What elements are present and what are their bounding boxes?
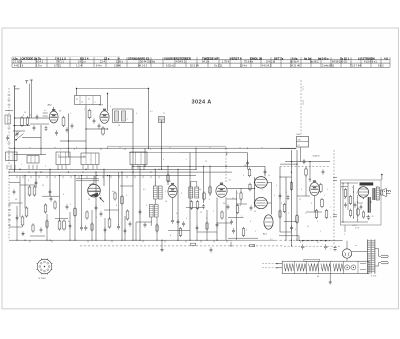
svg-text:2: 2 <box>311 203 312 205</box>
svg-text:3 6 1 e: 3 6 1 e <box>78 60 86 64</box>
capacitor C48 <box>279 194 282 196</box>
wire rectifier drop <box>346 258 348 261</box>
switch S1 wave band lever <box>16 134 24 140</box>
resistor R18 volume pot <box>248 169 251 176</box>
wire grid return y125 <box>13 125 30 127</box>
wire seg y196 <box>42 195 60 197</box>
tube V2 AF3 IF amp <box>100 111 109 123</box>
capacitor C39 <box>290 226 293 228</box>
resistor R49 <box>91 224 93 230</box>
svg-text:4: 4 <box>330 217 331 219</box>
dots row right <box>382 191 383 192</box>
resistor R19 <box>242 229 245 236</box>
svg-text:2: 2 <box>274 195 275 197</box>
wire x265 drop <box>264 166 266 176</box>
capacitor C35 <box>177 220 180 222</box>
wire drop x110 <box>109 176 111 219</box>
capacitor C40 <box>322 170 325 172</box>
wire coil vertical x161 <box>161 120 163 169</box>
resistor R44 <box>240 193 242 199</box>
wire drop x75 <box>74 176 76 241</box>
svg-text:1 56 e: 1 56 e <box>116 60 124 64</box>
wire oscillator feed vertical x68 <box>67 114 69 158</box>
wire y137 stub <box>22 137 41 139</box>
wire seg y232 <box>197 231 217 233</box>
resistor R41 <box>86 212 88 218</box>
resistor R25 <box>344 190 347 197</box>
svg-text:50: 50 <box>165 201 167 203</box>
wire x310 vertical <box>309 162 311 182</box>
wire drop x178 <box>177 169 179 240</box>
capacitor C21 <box>367 216 370 218</box>
capacitor C20 <box>354 203 357 205</box>
svg-text:6: 6 <box>170 235 171 237</box>
svg-text:8 14 2: 8 14 2 <box>36 60 44 64</box>
box L1 oscillator coil pack <box>75 96 101 105</box>
wire switch bus line 2 <box>9 171 232 173</box>
capacitor C25 <box>210 248 213 250</box>
wire seg y221 right <box>284 221 297 223</box>
wire riser x204 <box>203 166 205 203</box>
wire plate vertical x107 <box>107 94 109 111</box>
svg-text:4: 4 <box>301 189 302 191</box>
dial lamp LA1 <box>345 265 350 270</box>
wire AVC line y166 <box>133 165 265 167</box>
svg-text:2: 2 <box>320 231 321 233</box>
tube V10 AZ1 rectifier <box>342 249 351 258</box>
wire T2 link <box>154 199 156 205</box>
wire drop x50 <box>49 169 51 196</box>
svg-text:2: 2 <box>246 230 247 232</box>
box T2 lower coil a <box>149 205 153 218</box>
svg-text:6: 6 <box>28 180 29 182</box>
capacitor C45 <box>129 222 132 224</box>
header table column separators <box>11 57 13 67</box>
svg-text:21 4 e: 21 4 e <box>240 64 248 68</box>
junction extra dots <box>14 148 15 149</box>
box L8 padder coil <box>130 152 147 165</box>
wire V8 cathode <box>314 196 316 212</box>
svg-text:1 9 e: 1 9 e <box>36 64 42 68</box>
capacitor C27 <box>45 127 48 129</box>
resistor R46 <box>350 210 352 216</box>
wire seg y222 mid <box>136 221 152 223</box>
capacitor C3 <box>66 128 69 130</box>
capacitor C13 <box>202 205 205 207</box>
wire y129 seg <box>86 128 108 130</box>
svg-text:21: 21 <box>81 102 83 104</box>
tube V7 AL4 output <box>264 215 273 229</box>
wire antenna rail y89 short <box>15 88 20 90</box>
svg-text:50: 50 <box>24 112 26 114</box>
svg-text:1 75 4: 1 75 4 <box>222 60 230 64</box>
svg-text:4a: 4a <box>76 99 78 101</box>
capacitor C2 <box>33 126 36 128</box>
wire y152 right ext <box>180 152 248 154</box>
wire ground bus y240 right <box>232 239 275 241</box>
resistor R28 on heater bus <box>191 243 196 245</box>
resistor R22 <box>315 211 318 218</box>
svg-text:1: 1 <box>356 193 357 195</box>
wire drop x157 <box>156 217 158 240</box>
wire IF1 vertical x133 <box>132 110 134 240</box>
capacitor C16 <box>303 160 306 162</box>
capacitor C24 filter <box>333 247 336 249</box>
svg-text:64: 64 <box>344 198 346 200</box>
svg-text:8+: 8+ <box>317 242 319 244</box>
wire drop x207 <box>206 210 208 240</box>
wire block top rail <box>341 182 358 184</box>
wire seg y182 left <box>9 182 20 184</box>
svg-text:1: 1 <box>288 213 289 215</box>
svg-text:1: 1 <box>127 119 128 121</box>
svg-text:2: 2 <box>237 193 238 195</box>
wire drop x155 <box>154 169 156 186</box>
capacitor C46 <box>230 220 233 222</box>
svg-text:e: e <box>324 195 325 197</box>
capacitor C50 <box>360 205 363 207</box>
capacitor C47 <box>250 206 253 208</box>
wire earth tick <box>13 85 16 87</box>
wire seg y218 <box>55 217 68 219</box>
wire drop x140 <box>139 166 141 240</box>
wire antenna terminal A2 <box>30 79 33 81</box>
svg-text:1400: 1400 <box>296 134 300 136</box>
svg-text:e: e <box>262 189 263 191</box>
svg-text:DET 7a: DET 7a <box>274 56 284 60</box>
svg-text:2a: 2a <box>268 175 270 177</box>
svg-text:14 21 40: 14 21 40 <box>290 64 300 68</box>
wire seg y227 <box>9 226 23 228</box>
capacitor C52 <box>16 216 19 218</box>
dots lower band <box>16 240 17 241</box>
wire seg y186 mid <box>120 185 133 187</box>
tube V6 output pentode lower <box>255 197 268 208</box>
capacitor C9 <box>117 225 120 227</box>
resistor R47 <box>363 212 365 217</box>
svg-text:e 25 4: e 25 4 <box>352 225 357 227</box>
wire y148 stub right <box>280 148 297 150</box>
resistor R33 <box>167 175 169 181</box>
svg-text:4: 4 <box>110 106 111 108</box>
svg-text:a: a <box>95 102 96 104</box>
svg-text:2 8 40: 2 8 40 <box>114 64 122 68</box>
svg-text:1M: 1M <box>244 165 247 167</box>
svg-text:5: 5 <box>317 221 318 223</box>
wire heater dashed bus y246 <box>80 245 283 247</box>
resistor R16 <box>196 202 199 209</box>
svg-text:2: 2 <box>150 149 151 151</box>
svg-text:0,1: 0,1 <box>150 111 153 113</box>
svg-text:58: 58 <box>15 199 17 201</box>
capacitor C4 <box>93 119 96 121</box>
svg-text:50: 50 <box>223 203 225 205</box>
wire B+ top y241 <box>299 240 343 242</box>
svg-text:6: 6 <box>136 113 137 115</box>
wire drop x82 y176-224 <box>81 176 83 226</box>
capacitor C44 <box>100 212 103 214</box>
wire y238 lower <box>228 237 258 239</box>
capacitor C31 <box>35 181 38 183</box>
wire vertical x86 <box>85 105 87 153</box>
capacitor C10 <box>144 223 147 225</box>
svg-text:75 3,4 e: 75 3,4 e <box>244 60 254 64</box>
capacitor C34 <box>139 210 142 212</box>
svg-text:8: 8 <box>116 205 117 207</box>
wire block inner vertical b <box>347 183 349 210</box>
svg-text:4: 4 <box>295 229 296 231</box>
wire bus segment y154 <box>14 153 46 155</box>
resistor R50 <box>156 225 158 231</box>
capacitor C15 <box>232 229 235 231</box>
wire x236 vertical <box>235 190 237 240</box>
svg-text:52: 52 <box>88 199 90 201</box>
svg-text:h1: h1 <box>83 156 85 158</box>
svg-text:54 1 6 2: 54 1 6 2 <box>138 64 148 68</box>
arrow AVC into oscillator <box>100 198 105 203</box>
svg-text:0,1: 0,1 <box>270 239 273 241</box>
svg-text:25: 25 <box>372 216 374 218</box>
tick marks left frame <box>8 94 11 96</box>
wire drop x17 <box>16 206 18 240</box>
box T1 IF transformer 1 <box>113 109 134 123</box>
wire rectifier to transformer <box>352 251 368 253</box>
resistor R5 <box>28 187 31 195</box>
wire x226 cathode drop <box>225 197 227 240</box>
wire T3 top leads <box>190 182 192 188</box>
wire y204 det <box>236 203 247 205</box>
coil L3 single <box>159 117 165 123</box>
wire y148 junction ticks <box>29 147 31 148</box>
svg-text:2: 2 <box>100 195 101 197</box>
box T2 lower coil b <box>154 205 158 218</box>
wire top rail y88 <box>77 88 149 90</box>
wire y131 stub <box>13 130 25 132</box>
resistor R17 <box>236 206 239 213</box>
resistor R6 <box>33 187 36 195</box>
wire bus segment y157 <box>58 156 86 158</box>
capacitor C42 <box>13 190 16 192</box>
svg-text:58: 58 <box>118 125 120 127</box>
resistor R21 <box>321 200 324 207</box>
wire drop x25 <box>24 176 26 208</box>
wire block bottom rail <box>341 221 368 223</box>
resistor R1 <box>21 118 24 126</box>
ground G1 <box>22 232 24 234</box>
svg-text:aerial: aerial <box>301 100 304 105</box>
wire under-box double seg <box>76 178 99 180</box>
wire x306 drop <box>305 167 307 169</box>
wire drop x104 <box>103 169 105 186</box>
capacitor C36 <box>216 223 219 225</box>
resistor R26 <box>349 197 352 204</box>
wire seg y196 right <box>297 195 310 197</box>
svg-text:5 k 2: 5 k 2 <box>378 64 384 68</box>
capacitor C55 <box>124 229 127 231</box>
box T3 coil b <box>195 187 199 198</box>
svg-text:8: 8 <box>240 205 241 207</box>
svg-text:56 44 318 6a: 56 44 318 6a <box>140 60 155 64</box>
svg-text:3,4 1 36: 3,4 1 36 <box>266 60 276 64</box>
wire vertical x41 <box>40 125 42 155</box>
svg-text:3 7 21: 3 7 21 <box>54 64 62 68</box>
box T3 IF transformer 3 coil a <box>189 187 193 198</box>
dots output <box>254 188 255 189</box>
wire x299 riser <box>298 236 300 241</box>
heater strip block outline <box>282 261 369 273</box>
resistor R45 <box>279 211 281 217</box>
wire block bottom <box>344 225 346 232</box>
wire y164 right <box>280 163 297 165</box>
box L4 aerial coil <box>6 152 18 161</box>
speaker LS1 <box>381 190 383 195</box>
wire x247 drop <box>247 153 249 170</box>
wire y141 seg <box>60 140 86 142</box>
wire y223 det <box>217 222 232 224</box>
resistor R42 <box>114 193 116 199</box>
svg-text:0,1: 0,1 <box>44 110 47 112</box>
svg-text:2: 2 <box>70 113 71 115</box>
resistor R13 <box>126 211 129 219</box>
capacitor C37 <box>246 161 249 163</box>
wire antenna downlead pair <box>29 84 31 118</box>
wire strip left stubs <box>262 263 276 265</box>
ground G2 <box>161 247 163 249</box>
svg-text:25: 25 <box>200 212 202 214</box>
resistor R36 <box>290 183 293 190</box>
wire V3 cathode x172 <box>172 197 174 218</box>
svg-text:4 15 6 9 e1: 4 15 6 9 e1 <box>364 60 377 64</box>
wire drop x60 y176-218 <box>59 176 61 221</box>
svg-text:21: 21 <box>163 113 165 115</box>
wire x381 top stub <box>381 175 383 181</box>
svg-text:36 9a 4: 36 9a 4 <box>290 60 299 64</box>
ground G3 <box>329 280 331 282</box>
wire x301 aerial dashed vertical <box>300 80 302 137</box>
wire strip entry top <box>276 263 282 265</box>
wire drop x96 <box>95 172 97 240</box>
resistor R4 <box>88 110 91 118</box>
wire output rail x254 <box>254 177 256 208</box>
switch S2 wafer contacts <box>8 204 11 206</box>
capacitor C23 filter <box>324 245 327 247</box>
wire drop x20 y176-204 <box>19 176 21 217</box>
wire seg y217 det <box>228 217 244 219</box>
svg-text:64 58 140 25: 64 58 140 25 <box>332 60 347 64</box>
capacitor C51 left edge <box>6 136 9 138</box>
svg-text:4 54 8 1: 4 54 8 1 <box>176 60 186 64</box>
capacitor C56 <box>196 226 199 228</box>
box T2 coil b <box>158 186 162 199</box>
resistor R8 <box>21 217 24 225</box>
svg-text:1 2 4: 1 2 4 <box>76 64 82 68</box>
wire seg y199 det <box>227 198 236 200</box>
capacitor C12 <box>182 222 185 224</box>
svg-text:e2: e2 <box>112 191 114 193</box>
wire strip drop x330 <box>329 274 331 280</box>
svg-text:4 704: 4 704 <box>355 228 359 230</box>
svg-text:21: 21 <box>205 161 207 163</box>
svg-text:az: az <box>355 245 357 247</box>
wire AVC dashed y166 right <box>280 166 330 168</box>
resistor R14 <box>179 229 182 236</box>
svg-text:9a 140 e: 9a 140 e <box>318 56 329 60</box>
wire block inner vertical d <box>357 195 359 222</box>
svg-text:14: 14 <box>307 226 309 228</box>
wire dashed y246 power <box>284 245 341 247</box>
capacitor C49 <box>344 203 347 205</box>
svg-text:2: 2 <box>36 187 37 189</box>
wire seg y210 mid <box>104 209 119 211</box>
wire antenna terminal A1 <box>25 80 28 82</box>
resistor R15 <box>190 202 193 209</box>
wire chassis dashed rail left <box>8 88 10 240</box>
resistor R10 <box>58 221 61 229</box>
svg-text:4: 4 <box>74 149 75 151</box>
svg-text:a: a <box>60 149 61 151</box>
svg-text:54 1 e: 54 1 e <box>202 60 210 64</box>
wire block inner vertical c <box>353 185 355 218</box>
resistor R38 <box>305 169 307 175</box>
wire drop x47 <box>46 214 48 240</box>
svg-text:3: 3 <box>181 193 182 195</box>
box B3 connector block <box>297 137 309 148</box>
capacitor C18 electrolytic <box>367 197 369 213</box>
wire output rail comps <box>249 184 251 190</box>
wire box B3 drop <box>300 147 302 162</box>
svg-text:2: 2 <box>45 166 46 168</box>
capacitor C28 <box>55 131 58 133</box>
wire riser x196 <box>195 148 197 169</box>
wire coil feed vertical x76 <box>76 89 78 96</box>
svg-text:2: 2 <box>342 189 343 191</box>
wire switch bus line 3 <box>9 175 196 177</box>
wire screen vertical x148 <box>148 89 150 149</box>
svg-text:9a 58 2: 9a 58 2 <box>310 60 319 64</box>
wire coupling y188 <box>227 187 255 189</box>
svg-text:1: 1 <box>84 109 85 111</box>
wire seg y207 mid <box>186 206 204 208</box>
wire y232 seg <box>280 231 292 233</box>
svg-text:4: 4 <box>23 115 24 117</box>
wire V1 top cap <box>53 107 55 111</box>
wire grid line y118 <box>15 117 49 119</box>
svg-text:n.s.f.: n.s.f. <box>301 86 303 91</box>
svg-text:4: 4 <box>63 194 64 196</box>
capacitor C32 <box>49 190 52 192</box>
svg-text:31: 31 <box>58 155 60 157</box>
svg-text:21: 21 <box>299 199 301 201</box>
wire transformer right leads <box>375 248 379 250</box>
svg-text:1: 1 <box>330 207 331 209</box>
junction dots on switch bus <box>19 169 20 170</box>
resistor R7 <box>25 208 28 216</box>
wire x190 vertical <box>189 153 191 241</box>
wire drop x122 <box>121 172 123 240</box>
svg-text:50: 50 <box>59 111 61 113</box>
wire tick x231 <box>230 242 232 246</box>
svg-text:4a: 4a <box>68 221 70 223</box>
capacitor C30 <box>98 124 101 126</box>
capacitor C43 <box>66 205 69 207</box>
svg-text:6 52 e1: 6 52 e1 <box>166 64 175 68</box>
svg-text:21: 21 <box>42 185 44 187</box>
coil L2a <box>115 111 119 121</box>
heater strip top subrow <box>304 259 320 261</box>
wire y236 <box>279 235 299 237</box>
resistor R24 <box>283 205 286 212</box>
tube V4 AB2 detector <box>216 185 227 198</box>
